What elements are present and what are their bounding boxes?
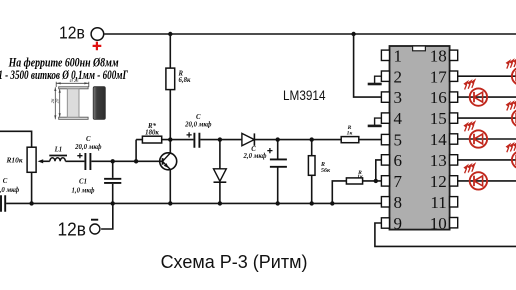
- svg-text:56к: 56к: [321, 168, 331, 174]
- svg-text:20: 20: [55, 98, 60, 103]
- svg-text:5: 5: [394, 131, 403, 150]
- svg-text:1: 1: [394, 46, 403, 65]
- svg-text:20,0 мкф: 20,0 мкф: [0, 187, 19, 194]
- svg-text:4: 4: [394, 109, 403, 128]
- svg-text:14: 14: [430, 130, 448, 149]
- svg-text:2: 2: [394, 67, 403, 86]
- svg-text:2,0 мкф: 2,0 мкф: [243, 153, 267, 160]
- svg-text:11: 11: [430, 193, 446, 212]
- svg-text:1к: 1к: [357, 174, 363, 180]
- svg-text:3: 3: [394, 88, 403, 107]
- svg-text:C: C: [3, 178, 8, 185]
- svg-text:Схема Р-3 (Ритм): Схема Р-3 (Ритм): [161, 252, 308, 272]
- svg-text:18: 18: [430, 46, 447, 65]
- svg-text:Л1 - 3500 витков Ø 0,1мм - 600: Л1 - 3500 витков Ø 0,1мм - 600мГ: [0, 67, 128, 82]
- svg-text:C: C: [196, 114, 201, 121]
- svg-text:16: 16: [430, 88, 447, 107]
- svg-text:12: 12: [430, 172, 447, 191]
- svg-text:C: C: [86, 136, 91, 143]
- svg-text:20,0 мкф: 20,0 мкф: [184, 122, 212, 129]
- svg-text:C1: C1: [79, 179, 87, 186]
- svg-text:1к: 1к: [347, 130, 353, 136]
- svg-text:6,8к: 6,8к: [179, 77, 191, 84]
- svg-text:12в: 12в: [58, 220, 86, 240]
- svg-text:7: 7: [394, 172, 403, 191]
- svg-text:12в: 12в: [59, 22, 85, 42]
- svg-text:L1: L1: [54, 146, 63, 153]
- svg-text:13: 13: [430, 151, 447, 170]
- svg-text:C: C: [251, 146, 256, 153]
- svg-text:17: 17: [430, 67, 448, 86]
- svg-text:10: 10: [430, 214, 447, 233]
- svg-text:20,0 мкф: 20,0 мкф: [74, 144, 102, 151]
- svg-text:LM3914: LM3914: [283, 88, 326, 103]
- svg-text:180к: 180к: [145, 129, 159, 136]
- svg-text:1,0 мкф: 1,0 мкф: [72, 187, 95, 194]
- svg-text:8: 8: [394, 193, 403, 212]
- svg-text:R10к: R10к: [6, 156, 23, 165]
- svg-text:15: 15: [430, 109, 447, 128]
- svg-text:9: 9: [394, 214, 403, 233]
- svg-text:6: 6: [394, 151, 403, 170]
